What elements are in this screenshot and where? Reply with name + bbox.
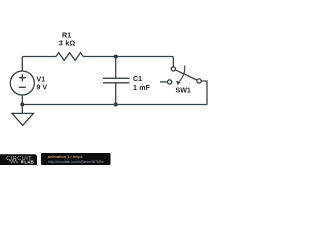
wire: top rail resistor to switch [83,56,173,58]
watermark info box [41,153,111,165]
svg-text:R1: R1 [62,32,71,40]
node: bottom junction at capacitor [114,103,118,107]
switch SW1 [172,57,174,67]
voltage source V1 [10,71,34,95]
node: junction above ground [20,103,24,107]
svg-text:1 mF: 1 mF [133,84,151,92]
svg-text:9 V: 9 V [37,84,48,92]
svg-text:3 kΩ: 3 kΩ [59,40,76,48]
svg-text:SW1: SW1 [176,87,191,95]
wire: V1 bottom to bottom rail [21,95,23,105]
svg-text:V1: V1 [37,76,46,84]
svg-text:C1: C1 [133,75,142,83]
ground [12,113,34,125]
wire: switch to right rail [201,81,207,105]
svg-text:http://circuitlab.com/c/5tevm9: http://circuitlab.com/c/5tevm9875f5e [48,160,104,164]
wire: capacitor top lead [115,57,117,79]
wire: V1 top to top rail [21,57,23,72]
wire: bottom rail [22,104,207,106]
wire: capacitor bottom lead [115,83,117,105]
svg-text:animation 1 / help1: animation 1 / help1 [48,154,84,159]
svg-text:LAB: LAB [24,159,34,164]
resistor R1 [56,53,83,61]
node: top junction at capacitor [114,55,118,59]
watermark logo box [0,154,37,168]
wire: top rail left segment [22,56,56,58]
capacitor C1 [103,78,130,83]
wire: ground stem [21,105,23,114]
